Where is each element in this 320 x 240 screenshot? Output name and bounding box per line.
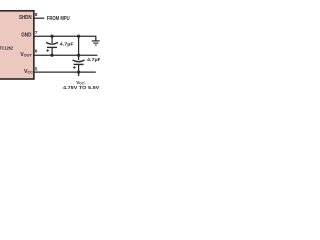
ground symbol (92, 41, 100, 45)
junction dot VOUT/C1 (50, 54, 53, 57)
svg-text:7: 7 (35, 30, 38, 36)
wire C1 bottom stub (51, 47, 53, 55)
wire C1 top stub (51, 36, 53, 43)
wire GND net (pin 7 to ground) (34, 36, 96, 41)
IC U1 LTC1262 body (0, 11, 34, 79)
junction dot GND/C1 (50, 35, 53, 38)
svg-text:8: 8 (35, 12, 38, 18)
capacitor C1 4.7uF plates (46, 42, 58, 47)
capacitor C2 4.7uF plates (73, 60, 85, 64)
svg-text:FROM MPU: FROM MPU (47, 16, 70, 22)
capacitor C2 plus polarity mark (73, 66, 76, 69)
svg-text:SHDN: SHDN (19, 15, 32, 21)
wire VOUT net (pin 6) (34, 54, 98, 56)
junction dot VOUT crossover (77, 54, 80, 57)
junction dot VCC/C2 (77, 71, 80, 74)
svg-text:VOUT: VOUT (20, 52, 32, 58)
svg-text:4.7µF: 4.7µF (87, 57, 100, 63)
capacitor C1 plus polarity mark (46, 49, 49, 52)
wire C2 bottom stub (78, 64, 80, 72)
wire VCC label stub (78, 72, 80, 76)
svg-text:4.7µF: 4.7µF (60, 42, 74, 48)
svg-text:4.75V TO 5.5V: 4.75V TO 5.5V (63, 85, 99, 90)
wire GND branch down to C2 (78, 36, 80, 60)
svg-text:VCC: VCC (24, 69, 33, 75)
svg-text:6: 6 (35, 49, 38, 55)
wire VCC net (pin 5) (34, 71, 96, 73)
junction dot GND/C2 branch (77, 35, 80, 38)
svg-text:LTC1262: LTC1262 (0, 45, 13, 50)
wire pin8 SHDN stub (34, 17, 45, 19)
svg-text:GND: GND (21, 33, 32, 39)
svg-text:5: 5 (35, 66, 38, 72)
